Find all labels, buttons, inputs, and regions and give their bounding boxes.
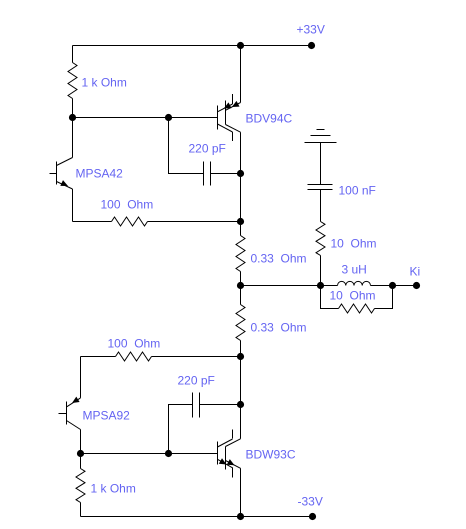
node junction MPSA92 collector / base wire bottom (77, 450, 84, 457)
capacitor 100 nF (308, 185, 333, 190)
svg-text:10 Ohm: 10 Ohm (331, 237, 377, 251)
wire base wire bottom (81, 453, 218, 455)
node junction output node left (237, 282, 244, 289)
svg-text:-33V: -33V (298, 495, 323, 509)
svg-text:220 pF: 220 pF (189, 142, 226, 156)
svg-text:100 Ohm: 100 Ohm (108, 337, 161, 351)
node junction top rail / BDV94C emitter (237, 42, 244, 49)
svg-text:BDV94C: BDV94C (246, 112, 293, 126)
svg-text:220 pF: 220 pF (178, 374, 215, 388)
wire output line (241, 285, 338, 287)
wire 100 Ohm bottom left lead (81, 356, 116, 358)
node terminal -33V (309, 513, 316, 520)
wire 220pF bottom left lead (169, 405, 193, 454)
wire 220pF top left lead (169, 118, 204, 174)
svg-text:MPSA42: MPSA42 (76, 167, 124, 181)
svg-text:100 Ohm: 100 Ohm (101, 198, 154, 212)
wire 0.33 top lower lead (240, 272, 242, 286)
capacitor 220 pF (top) (204, 162, 211, 186)
resistor 0.33 Ohm (bottom) (236, 305, 245, 341)
svg-text:Ki: Ki (410, 265, 421, 279)
inductor 3 uH (338, 281, 371, 285)
resistor 1 k Ohm (top) (68, 63, 77, 99)
wire 100 Ohm bottom right lead (152, 356, 241, 358)
resistor 100 Ohm (top) (112, 217, 148, 226)
transistor BDV94C (PNP darlington) (218, 46, 241, 174)
svg-text:100 nF: 100 nF (339, 184, 376, 198)
svg-text:MPSA92: MPSA92 (83, 409, 131, 423)
wire output node to 0.33 bottom (240, 286, 242, 305)
transistor BDW93C (NPN darlington) (218, 405, 241, 517)
wire 1k bottom lower lead (80, 503, 82, 517)
wire column 100 Ohm node to 0.33 top (240, 222, 242, 236)
wire 0.33 bottom lower lead (240, 341, 242, 357)
svg-text:BDW93C: BDW93C (246, 448, 296, 462)
node junction base wire top (69, 114, 76, 121)
ground (top of 100nF branch) (305, 130, 337, 143)
capacitor 220 pF (bottom) (193, 393, 200, 418)
resistor 0.33 Ohm (top) (236, 236, 245, 272)
node junction 220pF top tap (165, 114, 172, 121)
wire column emitter node to 100 Ohm node (240, 174, 242, 222)
node junction emitter node top (237, 170, 244, 177)
wire 100 Ohm top right lead (148, 221, 241, 223)
node junction 220pF bottom tap (165, 450, 172, 457)
resistor 10 Ohm (parallel with coil) (339, 304, 375, 313)
wire parallel 10 Ohm left leg (321, 286, 339, 309)
wire ground to 100nF (320, 143, 322, 185)
wire parallel 10 Ohm right leg (375, 286, 393, 309)
wire output line right of coil (371, 285, 417, 287)
transistor MPSA92 (PNP) (59, 357, 81, 454)
wire 1k bottom upper lead (80, 454, 82, 469)
wire 220pF top right lead (211, 173, 241, 175)
wire 220pF bottom right lead (200, 404, 241, 406)
wire top rail +33V (73, 45, 312, 47)
resistor 1 k Ohm (bottom) (76, 469, 85, 503)
resistor 10 Ohm (cap branch) (316, 222, 325, 256)
wire 100nF to 10 Ohm (320, 190, 322, 222)
wire base wire top (73, 117, 218, 119)
svg-text:3 uH: 3 uH (342, 263, 367, 277)
wire emitter MPSA42 to 100 Ohm (73, 221, 112, 223)
node junction cap branch bottom (317, 282, 324, 289)
node terminal Ki (413, 282, 420, 289)
node junction bottom rail / BDW93C emitter (237, 513, 244, 520)
node junction 220pF bottom right (237, 401, 244, 408)
node junction 100 Ohm bottom / column (237, 353, 244, 360)
svg-text:10 Ohm: 10 Ohm (330, 289, 376, 303)
svg-text:1 k Ohm: 1 k Ohm (82, 76, 127, 90)
wire 1k top lower lead (72, 99, 74, 118)
wire column to 220pF bottom node (240, 357, 242, 405)
wire bottom rail -33V (81, 516, 313, 518)
wire 1k top upper lead (72, 46, 74, 63)
node terminal +33V (308, 42, 315, 49)
node junction L/R right (389, 282, 396, 289)
node junction 100 Ohm top / column (237, 218, 244, 225)
svg-text:0.33 Ohm: 0.33 Ohm (251, 252, 307, 266)
svg-text:1 k Ohm: 1 k Ohm (91, 482, 136, 496)
svg-text:+33V: +33V (297, 23, 325, 37)
svg-text:0.33 Ohm: 0.33 Ohm (251, 321, 307, 335)
wire 10 Ohm to output node (320, 256, 322, 286)
resistor 100 Ohm (bottom) (116, 352, 152, 361)
transistor MPSA42 (NPN) (50, 118, 73, 222)
